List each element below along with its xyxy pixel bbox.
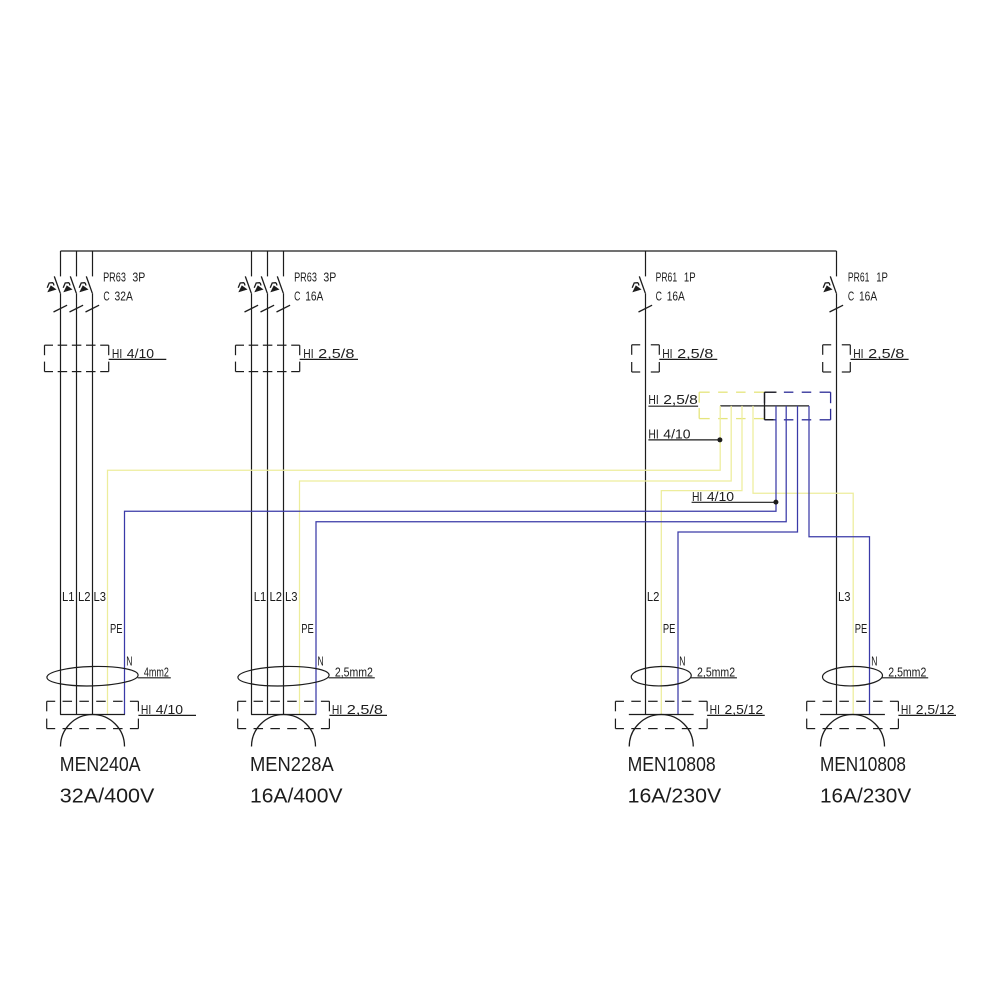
wire N socket1 (blue) bbox=[125, 406, 777, 715]
wire feeder2 L1 upper segment bbox=[251, 251, 253, 276]
svg-text:HI: HI bbox=[710, 702, 720, 717]
svg-text:16A: 16A bbox=[859, 289, 877, 304]
svg-text:PE: PE bbox=[855, 621, 868, 636]
svg-text:MEN228A: MEN228A bbox=[250, 754, 334, 776]
wire N socket4 (blue) bbox=[809, 406, 870, 715]
socket terminal line bbox=[820, 714, 885, 716]
wire N socket2 (blue) bbox=[316, 406, 786, 715]
wire feeder1 L2 upper segment bbox=[76, 251, 78, 276]
breaker pole contact on feeder1 L1 bbox=[47, 276, 67, 312]
socket terminal line bbox=[60, 714, 125, 716]
svg-text:1P: 1P bbox=[684, 269, 696, 284]
svg-text:PR61: PR61 bbox=[848, 269, 870, 284]
cable box feeder2 bbox=[236, 345, 300, 371]
svg-text:MEN10808: MEN10808 bbox=[820, 754, 906, 776]
svg-text:L2: L2 bbox=[647, 589, 660, 604]
svg-text:C: C bbox=[848, 289, 854, 304]
svg-text:16A: 16A bbox=[667, 289, 685, 304]
svg-text:C: C bbox=[103, 289, 109, 304]
svg-text:L3: L3 bbox=[838, 589, 851, 604]
svg-text:PE: PE bbox=[301, 621, 314, 636]
wire feeder2 L2 lower segment bbox=[267, 293, 269, 714]
N cable marker box (blue dashed) bbox=[765, 392, 831, 420]
breaker pole contact on feeder3 L2 bbox=[632, 276, 652, 312]
wire feeder2 L3 upper segment bbox=[283, 251, 285, 276]
svg-text:PR61: PR61 bbox=[656, 269, 678, 284]
svg-text:2,5/8: 2,5/8 bbox=[318, 346, 354, 361]
svg-text:16A/230V: 16A/230V bbox=[628, 786, 722, 808]
svg-text:PE: PE bbox=[663, 621, 676, 636]
svg-text:C: C bbox=[294, 289, 300, 304]
wire PE socket4 (yellow) bbox=[753, 406, 853, 715]
cable box feeder4 bbox=[823, 345, 851, 372]
svg-text:HI: HI bbox=[648, 426, 658, 441]
svg-text:2,5/8: 2,5/8 bbox=[347, 702, 383, 717]
wire feeder1 L3 lower segment bbox=[92, 293, 94, 714]
breaker pole contact on feeder2 L1 bbox=[238, 276, 258, 312]
svg-text:4/10: 4/10 bbox=[127, 346, 154, 361]
socket body arc bbox=[252, 715, 316, 747]
socket body arc bbox=[629, 715, 693, 747]
svg-text:4/10: 4/10 bbox=[156, 702, 183, 717]
svg-text:HI: HI bbox=[112, 346, 122, 361]
cable ellipse marker bbox=[47, 665, 139, 687]
wire feeder2 L2 upper segment bbox=[267, 251, 269, 276]
socket terminal line bbox=[251, 714, 316, 716]
svg-text:3P: 3P bbox=[132, 269, 145, 284]
svg-text:32A: 32A bbox=[115, 289, 134, 304]
svg-text:N: N bbox=[126, 653, 132, 668]
svg-text:2,5/12: 2,5/12 bbox=[916, 702, 955, 717]
wire feeder1 L1 upper segment bbox=[60, 251, 62, 276]
svg-text:2,5/8: 2,5/8 bbox=[677, 346, 713, 361]
wire N socket3 (blue) bbox=[678, 406, 798, 715]
svg-text:L2: L2 bbox=[270, 589, 283, 604]
svg-text:L3: L3 bbox=[285, 589, 298, 604]
wire feeder2 L1 lower segment bbox=[251, 293, 253, 714]
wire PE socket1 (yellow) bbox=[108, 406, 721, 715]
svg-text:L1: L1 bbox=[62, 589, 75, 604]
svg-text:N: N bbox=[318, 653, 324, 668]
svg-text:C: C bbox=[656, 289, 662, 304]
svg-text:3P: 3P bbox=[323, 269, 336, 284]
cable box feeder1 bbox=[45, 345, 109, 371]
wire feeder1 L2 lower segment bbox=[76, 293, 78, 714]
socket body arc bbox=[61, 715, 125, 747]
wire main supply bus bbox=[61, 250, 837, 252]
breaker pole contact on feeder4 L3 bbox=[823, 276, 843, 312]
svg-text:MEN240A: MEN240A bbox=[60, 754, 141, 776]
svg-text:16A: 16A bbox=[305, 289, 323, 304]
socket cable box bbox=[615, 701, 707, 728]
svg-text:PE: PE bbox=[110, 621, 123, 636]
svg-text:1P: 1P bbox=[876, 269, 888, 284]
svg-text:HI: HI bbox=[332, 702, 342, 717]
svg-text:HI: HI bbox=[853, 346, 863, 361]
cable ellipse marker bbox=[822, 666, 882, 687]
socket cable box bbox=[238, 701, 330, 728]
breaker pole contact on feeder1 L2 bbox=[63, 276, 83, 312]
svg-text:PR63: PR63 bbox=[294, 269, 317, 284]
svg-text:L3: L3 bbox=[94, 589, 107, 604]
svg-text:HI: HI bbox=[901, 702, 911, 717]
svg-text:HI: HI bbox=[662, 346, 672, 361]
svg-text:L1: L1 bbox=[254, 589, 267, 604]
wire feeder2 L3 lower segment bbox=[283, 293, 285, 714]
wire junction bus bbox=[720, 405, 809, 407]
svg-text:2,5/8: 2,5/8 bbox=[868, 346, 904, 361]
wire feeder3 L2 lower segment bbox=[645, 293, 647, 714]
cable ellipse marker bbox=[238, 665, 330, 687]
junction box bracket bbox=[765, 392, 777, 420]
svg-text:HI: HI bbox=[648, 392, 658, 407]
svg-text:PR63: PR63 bbox=[103, 269, 126, 284]
socket terminal line bbox=[629, 714, 694, 716]
svg-text:4/10: 4/10 bbox=[663, 426, 690, 441]
svg-text:N: N bbox=[679, 653, 685, 668]
svg-text:2,5/8: 2,5/8 bbox=[663, 392, 698, 407]
svg-text:32A/400V: 32A/400V bbox=[60, 786, 155, 808]
wire feeder1 L3 upper segment bbox=[92, 251, 94, 276]
svg-text:HI: HI bbox=[141, 702, 151, 717]
svg-text:HI: HI bbox=[303, 346, 313, 361]
wire PE socket2 (yellow) bbox=[300, 406, 732, 715]
breaker pole contact on feeder2 L3 bbox=[270, 276, 290, 312]
svg-text:16A/230V: 16A/230V bbox=[820, 786, 912, 808]
wire feeder4 L3 lower segment bbox=[836, 293, 838, 714]
wire feeder4 L3 upper segment bbox=[836, 251, 838, 276]
socket body arc bbox=[821, 715, 885, 747]
cable ellipse marker bbox=[631, 666, 691, 687]
socket cable box bbox=[807, 701, 899, 728]
svg-text:N: N bbox=[871, 653, 877, 668]
PE cable marker box (yellow dashed) bbox=[699, 392, 764, 418]
cable box feeder3 bbox=[632, 345, 660, 372]
socket cable box bbox=[47, 701, 139, 728]
wire PE socket3 (yellow) bbox=[661, 406, 742, 715]
svg-text:HI: HI bbox=[692, 489, 702, 504]
wire feeder3 L2 upper segment bbox=[645, 251, 647, 276]
wire feeder1 L1 lower segment bbox=[60, 293, 62, 714]
svg-text:4/10: 4/10 bbox=[707, 489, 734, 504]
svg-text:16A/400V: 16A/400V bbox=[250, 786, 343, 808]
breaker pole contact on feeder2 L2 bbox=[254, 276, 274, 312]
svg-text:L2: L2 bbox=[78, 589, 91, 604]
svg-text:2,5/12: 2,5/12 bbox=[725, 702, 764, 717]
svg-text:MEN10808: MEN10808 bbox=[628, 754, 716, 776]
breaker pole contact on feeder1 L3 bbox=[79, 276, 99, 312]
